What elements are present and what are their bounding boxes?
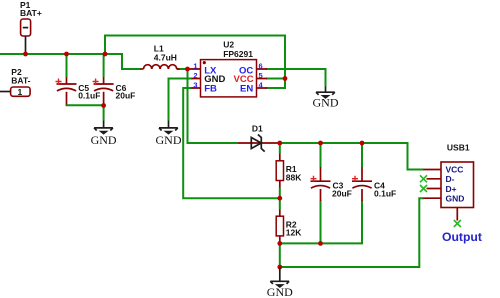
svg-text:6: 6 <box>259 61 263 70</box>
svg-text:20uF: 20uF <box>332 188 352 198</box>
svg-text:FB: FB <box>204 84 217 95</box>
svg-text:2: 2 <box>193 71 197 80</box>
svg-text:BAT+: BAT+ <box>20 8 42 18</box>
svg-text:FP6291: FP6291 <box>223 49 253 59</box>
svg-text:GND: GND <box>91 133 117 147</box>
svg-text:4.7uH: 4.7uH <box>154 53 177 63</box>
svg-text:GND: GND <box>446 193 465 203</box>
svg-text:BAT-: BAT- <box>11 75 30 85</box>
svg-text:3: 3 <box>193 80 197 89</box>
svg-text:GND: GND <box>156 133 182 147</box>
svg-text:GND: GND <box>267 285 293 298</box>
svg-text:20uF: 20uF <box>116 91 136 101</box>
svg-text:GND: GND <box>313 95 339 109</box>
svg-text:D1: D1 <box>252 123 263 133</box>
svg-text:0.1uF: 0.1uF <box>374 188 396 198</box>
svg-text:USB1: USB1 <box>447 142 470 152</box>
svg-text:1: 1 <box>193 61 197 70</box>
svg-text:Output: Output <box>442 230 482 244</box>
svg-text:0.1uF: 0.1uF <box>78 91 100 101</box>
svg-text:EN: EN <box>240 84 253 95</box>
svg-text:88K: 88K <box>286 173 302 183</box>
svg-text:12K: 12K <box>286 228 302 238</box>
svg-text:D+: D+ <box>446 184 457 194</box>
svg-text:VCC: VCC <box>446 165 464 175</box>
svg-text:5: 5 <box>259 71 263 80</box>
svg-text:D-: D- <box>446 174 455 184</box>
svg-text:1: 1 <box>18 87 23 97</box>
